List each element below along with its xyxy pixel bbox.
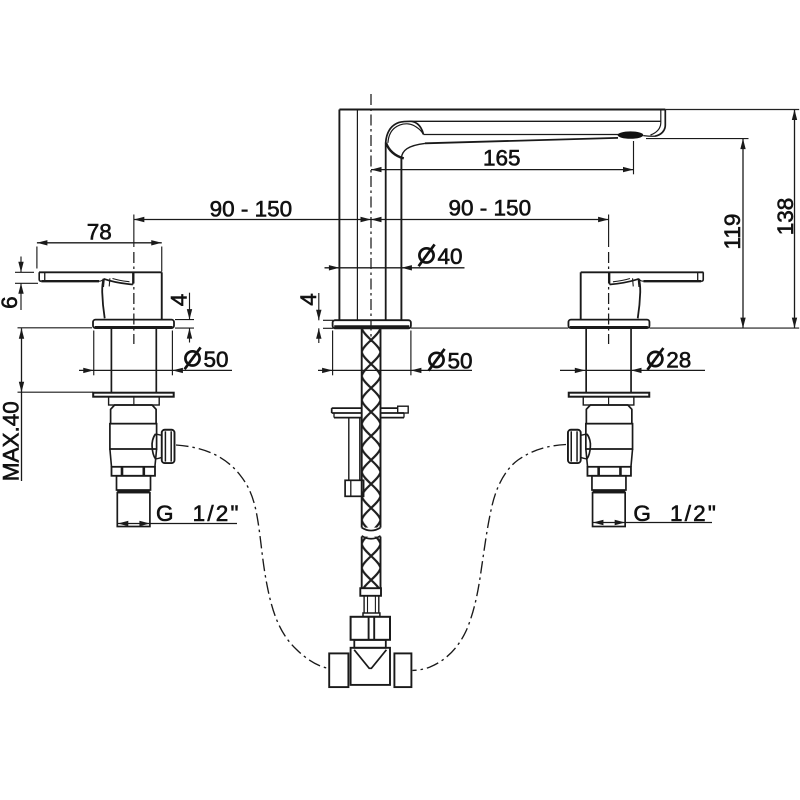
left handle: hex nut bbox=[112, 467, 156, 476]
right handle: lever blade top bbox=[581, 271, 704, 273]
left handle: threaded collar bbox=[117, 476, 151, 490]
left handle: lever hub swoosh bbox=[104, 279, 133, 285]
tee body bbox=[351, 648, 390, 685]
dim dia40 label bbox=[419, 248, 433, 262]
spout bend fillet shadow bbox=[386, 143, 404, 159]
right handle: valve body mid bbox=[586, 424, 633, 449]
svg-text:G 1/2": G 1/2" bbox=[633, 501, 718, 526]
right handle: base flange bbox=[568, 320, 649, 329]
left handle: outlet cap bbox=[162, 430, 175, 463]
left handle: neck piece bbox=[109, 397, 160, 405]
right handle: lever blade underside bbox=[643, 280, 701, 282]
svg-text:138: 138 bbox=[773, 198, 798, 236]
dim 6 line bbox=[20, 257, 22, 273]
spout underside bbox=[425, 138, 618, 143]
right handle: outlet cone bbox=[587, 434, 591, 459]
svg-text:50: 50 bbox=[204, 347, 229, 372]
dim G1/2 left line bbox=[118, 523, 237, 525]
right handle: lever hub edge bbox=[609, 273, 611, 285]
dim 4 left line bbox=[189, 293, 191, 320]
right handle: valve body upper bbox=[586, 405, 632, 424]
aerator bbox=[618, 131, 644, 138]
dim dia28 line bbox=[560, 369, 705, 371]
svg-text:4: 4 bbox=[166, 294, 191, 307]
mounting bracket bbox=[332, 407, 362, 409]
dim dia50 center line bbox=[318, 369, 472, 371]
right handle: threaded collar bbox=[592, 476, 626, 490]
svg-text:4: 4 bbox=[296, 293, 321, 306]
spout body inner line 2 bbox=[385, 143, 387, 321]
right handle: valve shank bbox=[630, 329, 632, 393]
svg-text:90 - 150: 90 - 150 bbox=[449, 195, 532, 220]
svg-text:MAX.40: MAX.40 bbox=[0, 401, 24, 481]
dim 138 line bbox=[794, 110, 796, 329]
left handle: outlet cone bbox=[152, 434, 156, 459]
spout tip outer bbox=[655, 110, 665, 137]
left handle: handle body edge bbox=[161, 272, 163, 319]
flexible hose lower bbox=[362, 537, 381, 589]
left handle: valve shank bbox=[110, 329, 112, 393]
dim 165 line bbox=[371, 169, 634, 171]
dim dia40 line bbox=[325, 267, 465, 269]
right handle: outlet cap bbox=[568, 430, 581, 463]
svg-text:6: 6 bbox=[0, 296, 22, 309]
tube band bbox=[363, 613, 380, 617]
spout body right edge bbox=[400, 158, 402, 320]
hose end collar bbox=[360, 588, 381, 596]
svg-text:90 - 150: 90 - 150 bbox=[210, 196, 293, 221]
svg-text:165: 165 bbox=[483, 145, 521, 170]
dim G1/2 right line bbox=[593, 522, 712, 524]
spout bend outer arc bbox=[386, 121, 411, 142]
dim dia28 label bbox=[648, 352, 662, 366]
left handle: lock washer bbox=[93, 393, 174, 397]
svg-text:119: 119 bbox=[720, 214, 745, 250]
spout upper contour bbox=[411, 120, 661, 122]
faucet centerline bbox=[370, 94, 372, 342]
spout tip inner bbox=[651, 110, 661, 136]
spout top extension line bbox=[665, 109, 799, 111]
mounting stud bbox=[348, 418, 350, 481]
left handle: lever hub front arc bbox=[102, 279, 105, 319]
right hose route bbox=[413, 445, 567, 671]
left handle: valve body upper bbox=[111, 405, 157, 424]
flexible hose upper bbox=[362, 329, 381, 528]
left handle: lever blade top bbox=[39, 271, 162, 273]
right handle: lever hub swoosh bbox=[610, 279, 639, 285]
right handle: valve body lower bbox=[586, 448, 633, 450]
spout body left edge bbox=[338, 110, 340, 321]
spout bend fillet bbox=[401, 143, 425, 158]
spout lower contour bbox=[424, 134, 620, 136]
dim dia50 left line bbox=[79, 369, 232, 371]
svg-text:50: 50 bbox=[448, 349, 473, 374]
svg-text:28: 28 bbox=[666, 348, 691, 373]
nut collar bbox=[354, 640, 386, 648]
dim 78 line bbox=[37, 242, 162, 244]
stud nut bbox=[345, 480, 364, 496]
right handle: inlet tail bbox=[593, 493, 626, 527]
dim 4 center line bbox=[318, 293, 320, 320]
left handle: valve body lower bbox=[110, 448, 157, 450]
left handle: valve body mid bbox=[110, 424, 157, 449]
right handle: lever end cap bbox=[701, 272, 703, 281]
left handle: base flange bbox=[93, 320, 174, 329]
left handle: inlet tail bbox=[117, 493, 150, 527]
dim MAX.40 line bbox=[21, 328, 23, 481]
right handle: neck piece bbox=[583, 397, 634, 405]
left hose route bbox=[176, 445, 328, 668]
dim dia50 center label bbox=[429, 353, 443, 367]
left handle: lever blade underside bbox=[41, 280, 99, 282]
svg-text:G 1/2": G 1/2" bbox=[156, 501, 241, 526]
left handle: lever hub edge bbox=[132, 273, 134, 285]
dim 119 line bbox=[742, 139, 744, 329]
right handle: lock washer bbox=[569, 393, 650, 397]
tee left port bbox=[329, 653, 348, 687]
right handle centerline bbox=[608, 252, 610, 344]
spout bend inner arc bbox=[411, 121, 424, 134]
dim 90-150 left line bbox=[134, 219, 371, 221]
svg-text:78: 78 bbox=[87, 220, 112, 245]
tee right port bbox=[394, 653, 411, 687]
compression nut bbox=[351, 617, 390, 640]
dim dia50 left label bbox=[185, 351, 199, 365]
spout body inner line 1 bbox=[356, 110, 358, 320]
right handle: handle body edge bbox=[580, 272, 582, 319]
spout top line bbox=[339, 109, 665, 111]
right handle: lever hub front arc bbox=[638, 279, 641, 319]
hose break bbox=[362, 528, 381, 531]
svg-text:40: 40 bbox=[438, 244, 463, 269]
left handle: lever end cap bbox=[39, 272, 41, 281]
dim 90-150 right line bbox=[371, 219, 609, 221]
hose end tube bbox=[363, 596, 365, 613]
spout bend band arc bbox=[388, 124, 423, 143]
left handle centerline bbox=[133, 252, 135, 344]
right handle: hex nut bbox=[587, 467, 631, 476]
faucet base flange bbox=[333, 320, 411, 328]
